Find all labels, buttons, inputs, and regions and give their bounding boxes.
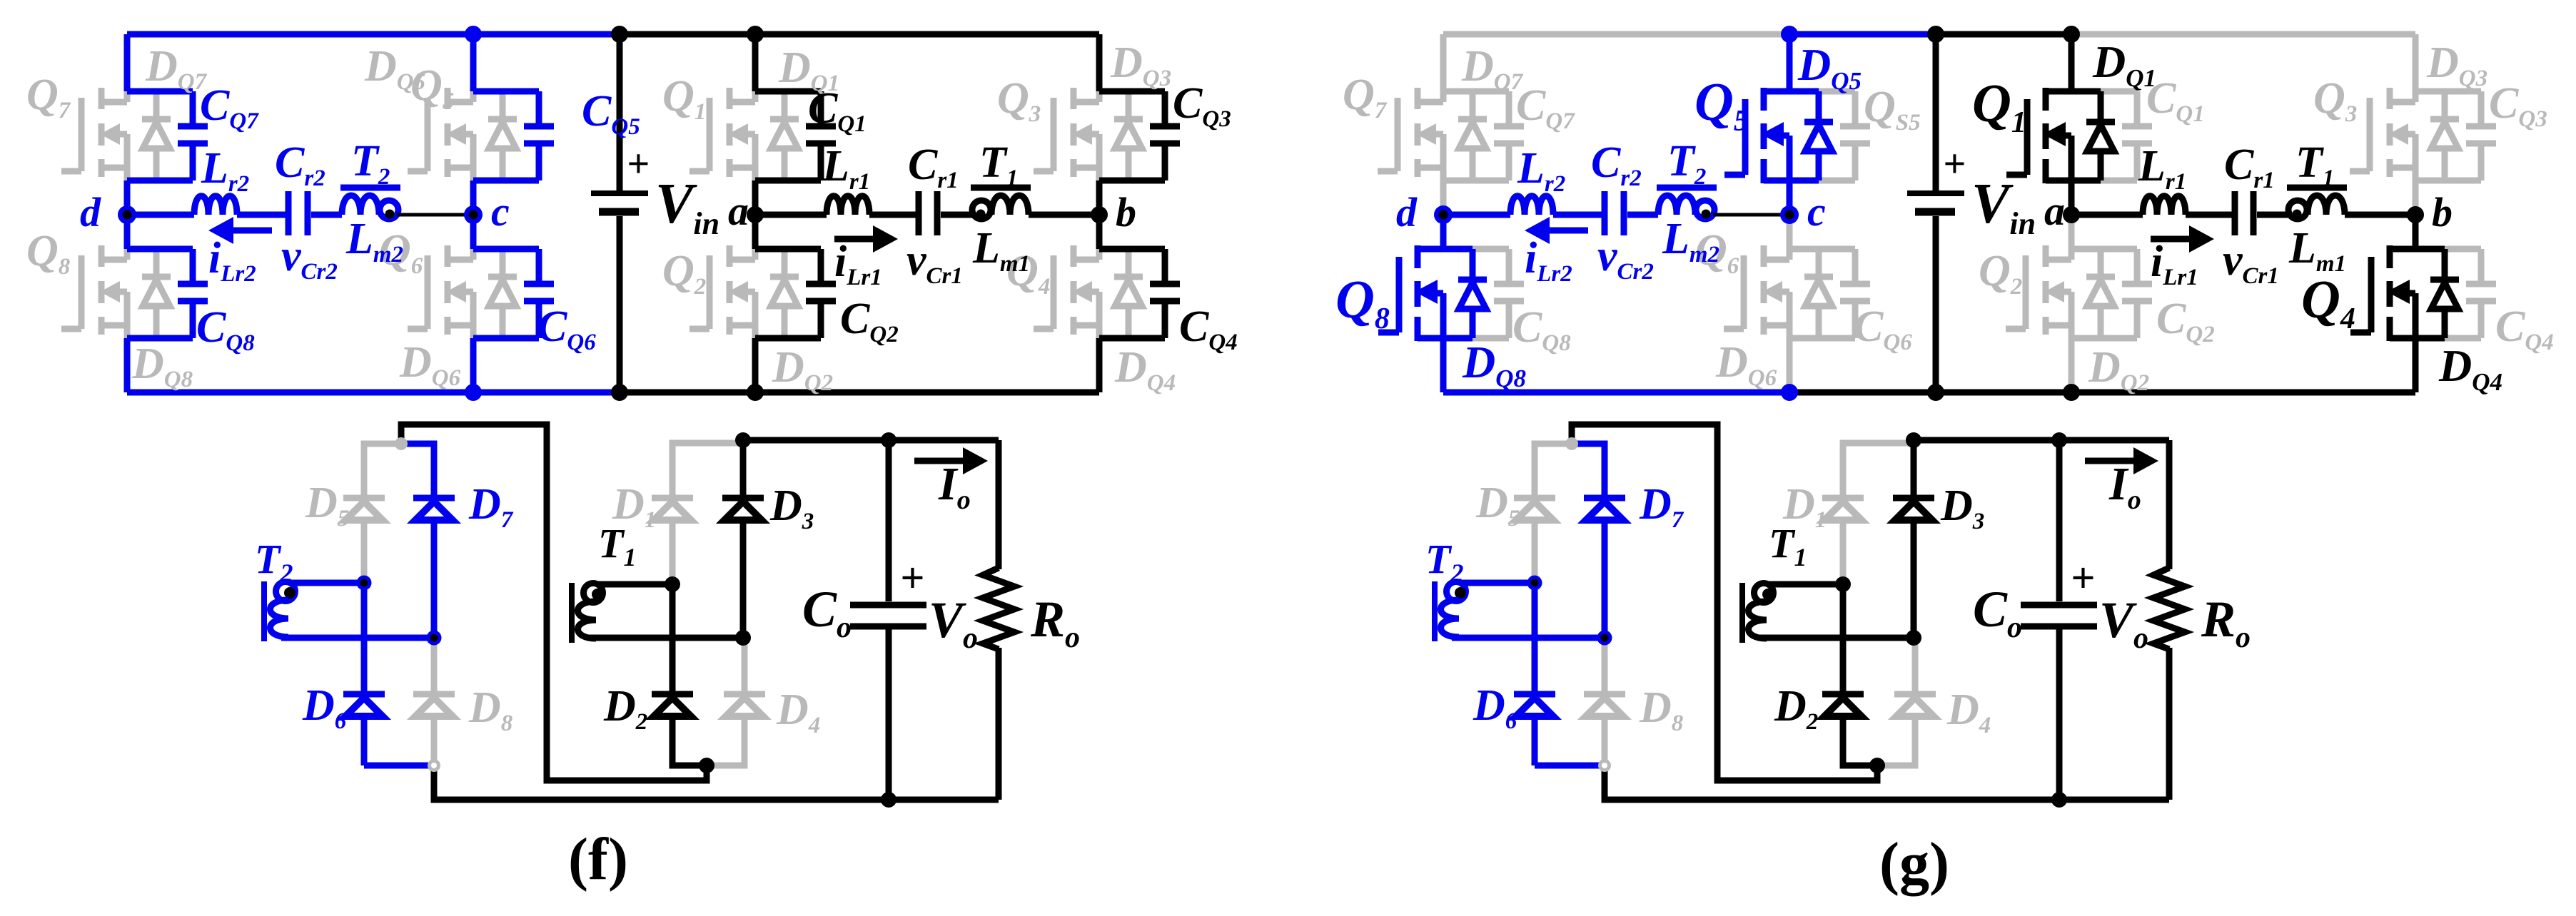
junction dot output top at Co bbox=[881, 432, 896, 448]
capacitor CQ8 (snubber) bbox=[127, 246, 193, 253]
capacitor CQ2 (snubber) bbox=[2071, 246, 2137, 253]
node b junction bbox=[1091, 206, 1108, 223]
wire Cr1 to T1 bbox=[2257, 212, 2288, 218]
diode DQ8 (body diode) bbox=[153, 249, 160, 274]
svg-text:b: b bbox=[2432, 189, 2453, 235]
svg-text:d: d bbox=[80, 189, 101, 235]
diode DQ5 (body diode) bbox=[1816, 91, 1822, 119]
inductor Lr2 bbox=[194, 196, 237, 215]
junction dot N2 (T2 bottom lead) bbox=[1597, 631, 1612, 646]
transistor Q3 (MOSFET symbol) bbox=[1051, 98, 1057, 171]
svg-text:+: + bbox=[900, 554, 924, 601]
wire T1 secondary top lead bbox=[1768, 581, 1843, 588]
capacitor QS5 (snubber) bbox=[1819, 88, 1855, 95]
wire leg Q5 upper blue bbox=[1787, 34, 1793, 91]
transistor Q6 (MOSFET symbol) bbox=[1741, 255, 1747, 329]
wire bottom row D6 to D8 (blue) bbox=[364, 763, 434, 769]
capacitor CQ4 (snubber) bbox=[2445, 246, 2481, 253]
wire feed from T2 rectifier top node to D2/D4 junction bbox=[401, 424, 707, 780]
wire D7 anode to node N2 (blue) bbox=[431, 520, 438, 638]
diode DQ5 (body diode) bbox=[500, 91, 506, 116]
wire Cr1 to T1 bbox=[941, 212, 972, 218]
wire T1 top node to D2 bbox=[1840, 584, 1847, 694]
wire leg middle bbox=[752, 180, 759, 249]
diode D2 bbox=[1822, 691, 1864, 698]
wire leg middle bbox=[1096, 180, 1103, 249]
junction dots top rail bbox=[1781, 26, 1798, 43]
junction dot output top at D3 bbox=[1906, 432, 1921, 448]
inductor Lr2 bbox=[1510, 196, 1553, 215]
capacitor CQ2 (snubber) bbox=[755, 246, 821, 253]
wire T2 to node c (thin black) bbox=[1713, 213, 1789, 217]
diode DQ2 (body diode) bbox=[782, 249, 788, 274]
wire T1 secondary bottom lead bbox=[589, 635, 743, 641]
wire leg Q2 gray bbox=[2069, 215, 2075, 249]
diode D1 bbox=[1822, 495, 1864, 502]
wire Lr2 to Cr2 bbox=[237, 212, 286, 218]
resistor Ro bbox=[2166, 440, 2173, 569]
wire Cr2 to T2 bbox=[1627, 212, 1658, 218]
capacitor CQ6 (snubber) bbox=[473, 246, 539, 253]
junction dots top rail bbox=[465, 26, 482, 43]
wire leg upper bbox=[470, 34, 477, 91]
transistor Q7 (MOSFET symbol) bbox=[1395, 98, 1401, 171]
wire leg Q7 upper gray bbox=[1440, 34, 1447, 91]
wire D6 anode to bottom row (blue) bbox=[361, 716, 368, 765]
transformer T1 primary winding bbox=[2287, 185, 2347, 191]
diode DQ6 (body diode) bbox=[1816, 249, 1822, 274]
wire D7 top lead (blue) bbox=[401, 444, 434, 498]
wire leg upper bbox=[752, 34, 759, 91]
diode D4 bbox=[1894, 691, 1936, 698]
wire T1 top node to D2 bbox=[670, 584, 676, 694]
capacitor Co bbox=[886, 440, 892, 601]
transformer T2 primary winding bbox=[340, 185, 400, 191]
node b junction bbox=[2407, 206, 2424, 223]
wire leg lower bbox=[752, 338, 759, 392]
wire node N2 to D8 (gray) bbox=[1602, 638, 1608, 694]
wire T1 to node b bbox=[1029, 212, 1099, 218]
wire bottom rail (black section) bbox=[620, 390, 1099, 396]
arrow Io bbox=[2085, 458, 2136, 464]
diode DQ2 (body diode) bbox=[2098, 249, 2104, 274]
wire node N1 to D6 (blue) bbox=[361, 583, 368, 694]
wire node a to Lr1 bbox=[755, 212, 827, 218]
capacitor CQ4 (snubber) bbox=[1099, 246, 1165, 253]
capacitor Co bbox=[2056, 440, 2063, 601]
diode DQ8 (body diode) bbox=[1470, 249, 1476, 277]
wire leg lower bbox=[1096, 338, 1103, 392]
wire leg Q7 to node d gray bbox=[1440, 180, 1447, 215]
junction dot bottom node (gray ring) bbox=[1598, 759, 1611, 772]
wire D6 anode to bottom row (blue) bbox=[1532, 716, 1538, 765]
transformer T2 secondary winding bbox=[261, 581, 267, 641]
wire D5 anode to node N1 (gray) bbox=[361, 520, 368, 583]
wire leg Q8 from node d blue bbox=[1440, 215, 1447, 249]
svg-text:+: + bbox=[627, 142, 650, 186]
wire leg Q5 to node c blue bbox=[1787, 180, 1793, 215]
wire bottom rail (blue section) bbox=[127, 390, 620, 396]
wire T2 to node c (thin black) bbox=[397, 213, 473, 217]
wire bottom node to output bottom rail bbox=[1605, 765, 2169, 800]
wire top rail (black section) bbox=[620, 31, 1099, 38]
wire D8 anode to bottom row (gray) bbox=[1602, 716, 1608, 765]
transistor Q7 (MOSFET symbol) bbox=[79, 98, 85, 171]
junction dot D2/D4 anode junction bbox=[699, 758, 714, 773]
wire leg Q4 from node b black bbox=[2413, 215, 2419, 249]
wire D8 anode to bottom row (gray) bbox=[431, 716, 438, 765]
svg-text:c: c bbox=[1807, 188, 1826, 235]
diode D7 bbox=[413, 495, 455, 502]
diode DQ3 (body diode) bbox=[2442, 91, 2448, 116]
capacitor Cr1 bbox=[2232, 191, 2238, 235]
wire leg upper bbox=[1096, 34, 1103, 91]
transistor Q4 (MOSFET symbol) bbox=[1051, 255, 1057, 329]
diode DQ1 (body diode) bbox=[782, 91, 788, 116]
junction dot T1 bottom node bbox=[1906, 630, 1921, 646]
transformer T1 secondary winding bbox=[1739, 583, 1745, 643]
svg-text:b: b bbox=[1116, 189, 1136, 235]
junction dot output top at Co bbox=[2051, 432, 2067, 448]
junction dots bottom rail bbox=[1781, 384, 1798, 401]
node c junction bbox=[464, 205, 483, 224]
wire node d to Lr2 bbox=[1443, 212, 1510, 218]
node c junction bbox=[1780, 205, 1799, 224]
voltage source Vin bbox=[617, 34, 623, 190]
svg-text:+: + bbox=[1943, 142, 1966, 186]
diode DQ4 (body diode) bbox=[1126, 249, 1132, 274]
transformer T2 secondary winding bbox=[1432, 581, 1438, 641]
wire output top rail bbox=[743, 437, 999, 444]
wire D4 cathode to N2 (gray) bbox=[742, 638, 748, 694]
capacitor CQ6 (snubber) bbox=[1789, 246, 1855, 253]
transistor Q8 (MOSFET symbol) bbox=[79, 255, 85, 329]
junction dot T1 top node bbox=[1835, 576, 1851, 592]
svg-text:c: c bbox=[491, 188, 510, 235]
capacitor CQ8 (snubber) bbox=[1473, 246, 1509, 253]
wire D3 anode to N2 node bbox=[1911, 520, 1917, 638]
wire leg Q8 lower blue bbox=[1440, 338, 1447, 392]
wire D2 anode to junction bbox=[1843, 716, 1877, 765]
junction dot top feed node (gray) bbox=[395, 437, 408, 450]
wire D3 anode to N2 node bbox=[740, 520, 747, 638]
wire D7 anode to node N2 (blue) bbox=[1602, 520, 1608, 638]
diode D7 bbox=[1584, 495, 1625, 502]
diode D5 bbox=[343, 495, 385, 502]
transistor Q4 (active MOSFET) bbox=[2368, 257, 2375, 332]
transistor Q5 (MOSFET symbol) bbox=[425, 98, 431, 171]
node a junction bbox=[747, 206, 764, 223]
wire node N2 to D8 (gray) bbox=[431, 638, 438, 694]
wire top rail (gray left) bbox=[1443, 31, 1789, 38]
junction dot output top at D3 bbox=[735, 432, 751, 448]
wire D4 cathode to N2 (gray) bbox=[1912, 638, 1919, 694]
arrow iLr1 current direction bbox=[2151, 236, 2191, 243]
diode DQ4 (body diode) bbox=[2442, 249, 2448, 277]
wire Lr1 to Cr1 bbox=[869, 212, 916, 218]
wire T1 to node b bbox=[2345, 212, 2415, 218]
junction dot bottom node (gray ring) bbox=[428, 759, 440, 772]
diode D6 bbox=[343, 691, 385, 698]
node d junction bbox=[1434, 205, 1453, 224]
capacitor Cr1 bbox=[916, 191, 922, 235]
wire leg upper bbox=[124, 34, 131, 91]
wire D2 anode to junction bbox=[672, 716, 707, 765]
wire leg middle bbox=[124, 180, 131, 249]
svg-text:+: + bbox=[2071, 554, 2095, 601]
junction dot N1 (T2 top lead) bbox=[1527, 576, 1542, 591]
junction dots bottom rail bbox=[465, 384, 482, 401]
wire D5 top lead (gray) bbox=[1535, 444, 1572, 498]
wire bottom rail (blue section) bbox=[1443, 390, 1789, 396]
capacitor CQ3 (snubber) bbox=[1099, 88, 1165, 95]
wire bottom rail (black section) bbox=[1789, 390, 2415, 396]
wire Lr1 to Cr1 bbox=[2186, 212, 2232, 218]
wire top rail (black section) bbox=[1936, 31, 2071, 38]
wire leg lower bbox=[470, 338, 477, 392]
wire D1 anode to T1 top node (gray) bbox=[670, 520, 676, 584]
wire leg middle bbox=[470, 180, 477, 249]
transistor Q5 (active MOSFET) bbox=[1742, 99, 1749, 175]
diode D4 bbox=[724, 691, 765, 698]
diode D8 bbox=[1584, 691, 1625, 698]
wire D5 anode to node N1 (gray) bbox=[1532, 520, 1538, 583]
wire leg Q1 to node a black bbox=[2069, 180, 2075, 215]
wire T2 secondary top lead bbox=[290, 580, 364, 586]
wire output top rail bbox=[1914, 437, 2169, 444]
arrow iLr2 current direction bbox=[231, 228, 272, 234]
svg-text:a: a bbox=[2044, 188, 2065, 234]
wire leg Q4 lower black bbox=[2413, 338, 2419, 392]
node d junction bbox=[118, 205, 136, 224]
wire Cr2 to T2 bbox=[311, 212, 342, 218]
wire D1 top lead (gray) bbox=[672, 443, 743, 498]
wire T2 secondary bottom lead bbox=[1452, 635, 1605, 641]
wire T2 secondary top lead bbox=[1460, 580, 1535, 586]
diode DQ6 (body diode) bbox=[500, 249, 506, 274]
resistor Ro bbox=[996, 440, 1002, 569]
voltage source Vin bbox=[1933, 34, 1939, 190]
wire node a to Lr1 bbox=[2071, 212, 2143, 218]
svg-text:a: a bbox=[728, 188, 749, 234]
junction dot N2 (T2 bottom lead) bbox=[427, 631, 442, 646]
diode DQ7 (body diode) bbox=[1470, 91, 1476, 116]
transistor Q1 (active MOSFET) bbox=[2024, 99, 2031, 175]
transformer T2 primary winding bbox=[1657, 185, 1717, 191]
capacitor CQ1 (snubber) bbox=[755, 88, 821, 95]
transistor Q2 (MOSFET symbol) bbox=[707, 255, 713, 329]
wire D7 top lead (blue) bbox=[1572, 444, 1605, 498]
transistor Q1 (MOSFET symbol) bbox=[707, 98, 713, 171]
wire leg Q1 upper black bbox=[2069, 34, 2075, 91]
capacitor CQ3 (snubber) bbox=[2415, 88, 2481, 95]
svg-text:(g): (g) bbox=[1879, 830, 1949, 897]
wire bottom row D6 to D8 (blue) bbox=[1535, 763, 1605, 769]
wire D4 anode to junction (gray) bbox=[1877, 716, 1915, 765]
junction dot output bottom at Co bbox=[2051, 792, 2067, 808]
transformer T1 primary winding bbox=[971, 185, 1031, 191]
wire leg lower bbox=[124, 338, 131, 392]
wire T2 secondary bottom lead bbox=[281, 635, 434, 641]
diode D3 bbox=[1893, 495, 1934, 502]
wire D1 anode to T1 top node (gray) bbox=[1840, 520, 1847, 584]
capacitor CQ7 (snubber) bbox=[127, 88, 193, 95]
capacitor Cr2 bbox=[1602, 191, 1608, 235]
transistor Q2 (MOSFET symbol) bbox=[2023, 255, 2029, 329]
capacitor CQ7 (snubber) bbox=[1443, 88, 1509, 95]
svg-text:d: d bbox=[1396, 189, 1418, 235]
arrow Io bbox=[914, 458, 965, 464]
capacitor Cr2 bbox=[286, 191, 292, 235]
transistor Q8 (active MOSFET) bbox=[1396, 257, 1403, 332]
wire Lr2 to Cr2 bbox=[1553, 212, 1602, 218]
junction dot T1 bottom node bbox=[735, 630, 751, 646]
wire D3 cathode to output top rail bbox=[740, 440, 747, 498]
wire node N1 to D6 (blue) bbox=[1532, 583, 1538, 694]
wire D5 top lead (gray) bbox=[364, 444, 401, 498]
wire leg Q3 gray bbox=[2413, 34, 2419, 91]
transistor Q3 (MOSFET symbol) bbox=[2367, 98, 2373, 171]
diode DQ7 (body diode) bbox=[153, 91, 160, 116]
junction dot output bottom at Co bbox=[881, 792, 896, 808]
diode D5 bbox=[1514, 495, 1555, 502]
wire D3 cathode to output top rail bbox=[1911, 440, 1917, 498]
junction dot N1 (T2 top lead) bbox=[357, 576, 372, 591]
wire node d to Lr2 bbox=[127, 212, 194, 218]
wire bottom node to output bottom rail bbox=[434, 765, 999, 800]
wire T1 secondary bottom lead bbox=[1759, 635, 1914, 641]
diode D2 bbox=[652, 691, 693, 698]
arrow iLr2 current direction bbox=[1547, 228, 1588, 234]
diode DQ3 (body diode) bbox=[1126, 91, 1132, 116]
transistor Q6 (MOSFET symbol) bbox=[425, 255, 431, 329]
diode D6 bbox=[1514, 691, 1555, 698]
wire D1 top lead (gray) bbox=[1843, 443, 1914, 498]
diode D1 bbox=[652, 495, 693, 502]
diode D3 bbox=[722, 495, 764, 502]
diode DQ1 (body diode) bbox=[2098, 91, 2104, 119]
junction dot top feed node (gray) bbox=[1565, 437, 1578, 450]
wire top rail (blue section) bbox=[127, 31, 620, 38]
wire feed from T2 rectifier top node to D2/D4 junction bbox=[1572, 424, 1877, 780]
arrow iLr1 current direction bbox=[834, 236, 875, 243]
svg-text:(f): (f) bbox=[568, 826, 628, 892]
wire leg Q6 gray bbox=[1787, 215, 1793, 249]
junction dot D2/D4 anode junction bbox=[1869, 758, 1885, 773]
inductor Lr1 bbox=[2143, 196, 2186, 215]
transformer T1 secondary winding bbox=[569, 583, 575, 643]
inductor Lr1 bbox=[827, 196, 869, 215]
wire top rail (blue section) bbox=[1789, 31, 1936, 38]
wire top rail (gray right) bbox=[2071, 31, 2415, 38]
wire D4 anode to junction (gray) bbox=[707, 716, 744, 765]
diode D8 bbox=[413, 691, 455, 698]
capacitor CQ1 (snubber) bbox=[2101, 88, 2137, 95]
node a junction bbox=[2063, 206, 2080, 223]
capacitor CQ5 (snubber) bbox=[473, 88, 539, 95]
wire T1 secondary top lead bbox=[597, 581, 672, 588]
junction dot T1 top node bbox=[665, 576, 680, 592]
